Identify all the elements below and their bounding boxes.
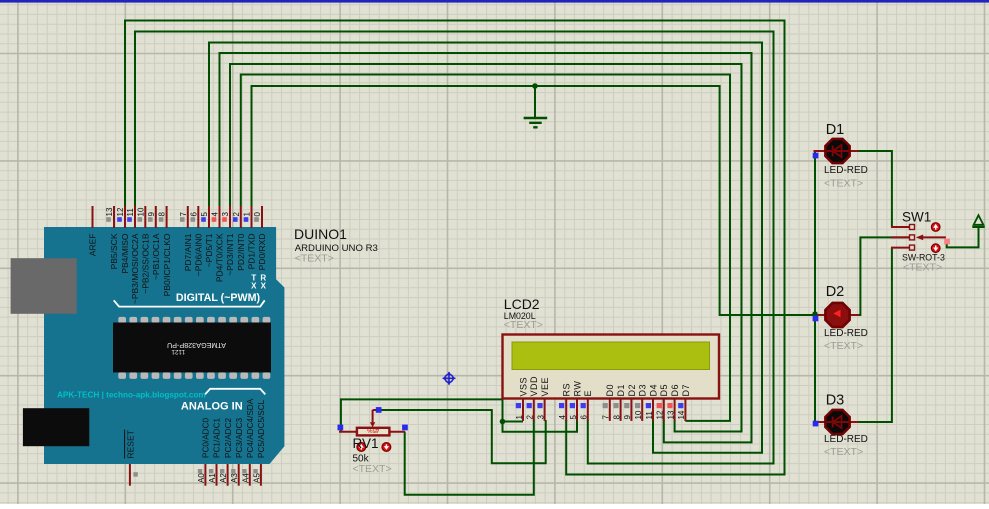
LCD pin 4 RS bbox=[558, 383, 572, 421]
svg-text:12: 12 bbox=[116, 207, 125, 216]
svg-text:PB4/MISO: PB4/MISO bbox=[120, 233, 130, 274]
arduino pin 1 bbox=[243, 206, 257, 269]
RV1 adjust buttons bbox=[357, 443, 391, 452]
arduino pin A5 bbox=[252, 399, 266, 485]
origin marker crosshair bbox=[443, 372, 456, 385]
wire pin12 to LCD RS bbox=[125, 21, 785, 475]
svg-text:LED-RED: LED-RED bbox=[824, 328, 868, 339]
svg-text:PC1/ADC1: PC1/ADC1 bbox=[213, 418, 222, 458]
arduino labels DUINO1 bbox=[294, 226, 378, 265]
wire RV1 left to LCD VSS bbox=[341, 399, 523, 431]
arduino pin 5 bbox=[200, 206, 214, 267]
svg-text:PD1/TXD: PD1/TXD bbox=[247, 234, 257, 270]
ATMEGA328P chip U1 bbox=[113, 317, 271, 379]
svg-text:PD2/INT0: PD2/INT0 bbox=[236, 233, 246, 271]
svg-text:<TEXT>: <TEXT> bbox=[824, 446, 863, 458]
arduino TX RX labels bbox=[251, 274, 266, 291]
arduino pin 6 bbox=[189, 206, 203, 276]
wire D2 to SW1 rotor contact bbox=[858, 237, 910, 315]
svg-text:E: E bbox=[583, 390, 593, 397]
LCD pin 1 VSS bbox=[515, 377, 529, 421]
svg-text:D4: D4 bbox=[648, 384, 658, 397]
svg-text:~PB1/OC1A: ~PB1/OC1A bbox=[151, 233, 161, 280]
svg-text:1: 1 bbox=[515, 415, 524, 420]
svg-text:A4: A4 bbox=[241, 473, 250, 483]
svg-text:D5: D5 bbox=[659, 384, 669, 397]
svg-text:A0: A0 bbox=[197, 473, 206, 483]
svg-text:PB0/ICP1/CLKO: PB0/ICP1/CLKO bbox=[162, 233, 172, 296]
svg-text:VSS: VSS bbox=[518, 377, 528, 397]
svg-text:<TEXT>: <TEXT> bbox=[824, 340, 863, 352]
svg-text:PD0/RXD: PD0/RXD bbox=[257, 234, 267, 271]
arduino pin A1 bbox=[208, 418, 222, 486]
arduino U1 DUINO1 board body bbox=[44, 227, 284, 464]
wire LED cathode bus D1-D2-D3 bbox=[814, 151, 816, 422]
arduino pin 10 bbox=[136, 206, 150, 294]
arduino pin 13 bbox=[105, 206, 119, 269]
arduino pin 7 bbox=[179, 206, 193, 271]
LCD pin 3 VEE bbox=[536, 377, 550, 421]
svg-text:PC5/ADC5/SCL: PC5/ADC5/SCL bbox=[257, 399, 266, 458]
node junction VSS net bbox=[500, 419, 506, 425]
svg-text:11: 11 bbox=[126, 208, 135, 217]
svg-text:LED-RED: LED-RED bbox=[824, 434, 868, 445]
svg-text:~PD6/AIN0: ~PD6/AIN0 bbox=[194, 233, 204, 276]
ground bbox=[524, 86, 548, 127]
D3 handle bbox=[813, 421, 819, 427]
LCD pin 2 VDD bbox=[526, 376, 540, 421]
resistor RV1 potentiometer bbox=[339, 410, 405, 436]
wire pin1 ground net to D2 anode bbox=[252, 86, 817, 315]
wire RV1 wiper to LCD VEE bbox=[377, 410, 546, 463]
svg-text:10: 10 bbox=[634, 410, 643, 419]
svg-text:A5: A5 bbox=[252, 473, 261, 483]
svg-text:14: 14 bbox=[677, 410, 686, 419]
svg-text:D2: D2 bbox=[627, 384, 637, 397]
svg-text:X: X bbox=[251, 282, 257, 291]
svg-text:2: 2 bbox=[526, 415, 535, 420]
svg-text:D0: D0 bbox=[605, 384, 615, 397]
svg-text:A1: A1 bbox=[208, 473, 217, 483]
svg-text:A3: A3 bbox=[230, 473, 239, 483]
diode D3 LED-RED bbox=[814, 393, 868, 459]
svg-text:RESET: RESET bbox=[125, 430, 135, 458]
svg-text:1121: 1121 bbox=[171, 348, 185, 355]
svg-text:X: X bbox=[261, 282, 267, 291]
svg-text:D6: D6 bbox=[670, 384, 680, 397]
wire RV1 right to LCD VDD bbox=[405, 420, 534, 495]
svg-text:SW1: SW1 bbox=[902, 210, 931, 225]
arduino pin 0 bbox=[253, 206, 267, 270]
LCD pin 6 E bbox=[580, 390, 594, 421]
arduino pin AREF bbox=[88, 206, 98, 256]
svg-text:D3: D3 bbox=[826, 393, 845, 409]
arduino pin 4 bbox=[211, 206, 225, 282]
LCD pin 9 D2 bbox=[623, 384, 637, 421]
svg-text:<TEXT>: <TEXT> bbox=[824, 178, 863, 190]
svg-text:7: 7 bbox=[179, 212, 188, 217]
D1 handle bbox=[813, 153, 819, 159]
svg-text:APK-TECH | techno-apk.blogspot: APK-TECH | techno-apk.blogspot.com bbox=[57, 391, 206, 400]
svg-text:<TEXT>: <TEXT> bbox=[353, 463, 392, 475]
svg-text:PC4/ADC4/SDA: PC4/ADC4/SDA bbox=[246, 398, 255, 458]
arduino pin 12 bbox=[116, 206, 130, 274]
wire pin2 to LCD D7 bbox=[241, 75, 730, 421]
wire D1 to SW1 top contact bbox=[858, 151, 892, 227]
svg-text:<TEXT>: <TEXT> bbox=[903, 262, 942, 274]
svg-text:12: 12 bbox=[656, 410, 665, 419]
LCD pin 7 D0 bbox=[602, 384, 616, 421]
svg-text:7: 7 bbox=[602, 415, 611, 420]
node junction at D2 bbox=[812, 311, 817, 316]
svg-text:PC3/ADC3: PC3/ADC3 bbox=[235, 418, 244, 458]
SW1 adjust buttons bbox=[931, 223, 940, 253]
arduino pin 9 bbox=[147, 206, 161, 280]
svg-text:PD7/AIN1: PD7/AIN1 bbox=[183, 233, 193, 271]
arduino USB connector bbox=[11, 258, 77, 314]
svg-text:PC0/ADC0: PC0/ADC0 bbox=[202, 418, 211, 458]
diode D1 LED-RED bbox=[814, 122, 868, 190]
switch SW1 SW-ROT-3 contacts bbox=[891, 225, 915, 251]
arduino pin A4 bbox=[241, 398, 255, 485]
svg-text:D3: D3 bbox=[638, 384, 648, 397]
power terminal arrow bbox=[972, 215, 984, 227]
svg-text:PC2/ADC2: PC2/ADC2 bbox=[224, 418, 233, 458]
wire pin5 to LCD D4 bbox=[209, 43, 762, 453]
arduino power jack bbox=[23, 408, 89, 446]
SW1 labels bbox=[902, 210, 945, 274]
svg-text:A2: A2 bbox=[219, 473, 228, 483]
svg-text:5: 5 bbox=[569, 415, 578, 420]
svg-text:4: 4 bbox=[558, 415, 567, 420]
svg-text:8: 8 bbox=[158, 212, 167, 217]
svg-text:11: 11 bbox=[645, 411, 654, 420]
arduino DIGITAL (~PWM) label bbox=[114, 292, 265, 306]
arduino pin A3 bbox=[230, 418, 244, 486]
svg-text:~PB2/SS/OC1B: ~PB2/SS/OC1B bbox=[141, 233, 151, 294]
node junction at ground tap bbox=[532, 83, 538, 89]
svg-text:3: 3 bbox=[536, 415, 545, 420]
D2 handle bbox=[813, 316, 819, 322]
sheet top border bbox=[0, 0, 989, 3]
svg-text:9: 9 bbox=[623, 415, 632, 420]
SW1 rotor arrow bbox=[916, 235, 946, 241]
svg-text:PB5/SCK: PB5/SCK bbox=[109, 233, 119, 269]
RV1 selection handles bbox=[338, 407, 408, 430]
svg-text:6: 6 bbox=[189, 212, 198, 217]
wire VSS net to LCD RW bbox=[503, 420, 578, 432]
svg-text:45%: 45% bbox=[367, 427, 380, 433]
svg-text:<TEXT>: <TEXT> bbox=[295, 253, 334, 265]
arduino pin A0 bbox=[197, 418, 211, 486]
svg-text:2: 2 bbox=[232, 212, 241, 217]
svg-text:LCD2: LCD2 bbox=[504, 296, 540, 312]
LCD pin 13 D6 bbox=[666, 384, 680, 421]
svg-text:13: 13 bbox=[666, 410, 675, 419]
svg-text:D7: D7 bbox=[681, 384, 691, 397]
LCD labels bbox=[504, 296, 543, 331]
svg-text:DIGITAL (~PWM): DIGITAL (~PWM) bbox=[176, 292, 261, 304]
wire pin4 to LCD D5 bbox=[220, 53, 752, 442]
LCD pin 12 D5 bbox=[656, 384, 670, 421]
svg-text:ANALOG IN: ANALOG IN bbox=[181, 400, 243, 412]
svg-text:DUINO1: DUINO1 bbox=[294, 226, 347, 242]
svg-text:RS: RS bbox=[562, 383, 572, 397]
svg-text:8: 8 bbox=[612, 415, 621, 420]
arduino pin 3 bbox=[221, 206, 235, 276]
svg-text:D1: D1 bbox=[826, 122, 845, 138]
LCD pin 11 D4 bbox=[645, 384, 659, 421]
svg-text:D1: D1 bbox=[616, 384, 626, 397]
svg-text:VDD: VDD bbox=[529, 376, 539, 397]
svg-text:5: 5 bbox=[200, 212, 209, 217]
wire D3 to SW1 bottom contact bbox=[858, 248, 892, 422]
svg-text:VEE: VEE bbox=[540, 377, 550, 397]
wire pin3 to LCD D6 bbox=[230, 64, 742, 432]
LCD pin 10 D3 bbox=[634, 384, 648, 421]
wire power terminal to SW1 rotor bbox=[947, 227, 979, 248]
svg-text:PD4/T0/XCK: PD4/T0/XCK bbox=[215, 233, 225, 282]
LCD pin 8 D1 bbox=[612, 384, 626, 421]
svg-text:~PD5/T1: ~PD5/T1 bbox=[204, 233, 214, 267]
svg-text:RV1: RV1 bbox=[353, 436, 379, 451]
arduino RESET pin bbox=[125, 430, 138, 486]
LCD screen bbox=[512, 342, 710, 370]
svg-text:6: 6 bbox=[580, 415, 589, 420]
arduino pin A2 bbox=[219, 418, 233, 486]
svg-text:3: 3 bbox=[221, 212, 230, 217]
svg-text:<TEXT>: <TEXT> bbox=[504, 319, 543, 331]
svg-text:0: 0 bbox=[253, 212, 262, 217]
LCD2 LM020L body bbox=[503, 335, 720, 399]
arduino pin 2 bbox=[232, 206, 246, 271]
arduino pin 8 bbox=[158, 206, 172, 296]
svg-text:13: 13 bbox=[105, 207, 114, 216]
RV1 labels bbox=[353, 436, 392, 475]
diode D2 LED-RED bbox=[814, 284, 868, 352]
svg-text:LED-RED: LED-RED bbox=[824, 165, 868, 176]
SW1 pink terminal marker bbox=[944, 239, 950, 245]
arduino pin 11 bbox=[126, 206, 140, 304]
svg-text:RW: RW bbox=[572, 381, 582, 397]
svg-text:~PD3/INT1: ~PD3/INT1 bbox=[225, 233, 235, 276]
LCD pin 5 RW bbox=[569, 381, 583, 421]
svg-text:AREF: AREF bbox=[88, 234, 98, 257]
LCD pin 14 D7 bbox=[677, 384, 691, 421]
svg-text:1: 1 bbox=[243, 212, 252, 217]
svg-text:~PB3/MOSI/OC2A: ~PB3/MOSI/OC2A bbox=[130, 233, 140, 304]
svg-text:9: 9 bbox=[147, 212, 156, 217]
svg-text:D2: D2 bbox=[826, 284, 845, 300]
svg-text:10: 10 bbox=[136, 207, 145, 216]
arduino ANALOG IN label bbox=[181, 389, 265, 413]
svg-text:4: 4 bbox=[211, 212, 220, 217]
wire pin11 to LCD E bbox=[135, 32, 774, 464]
